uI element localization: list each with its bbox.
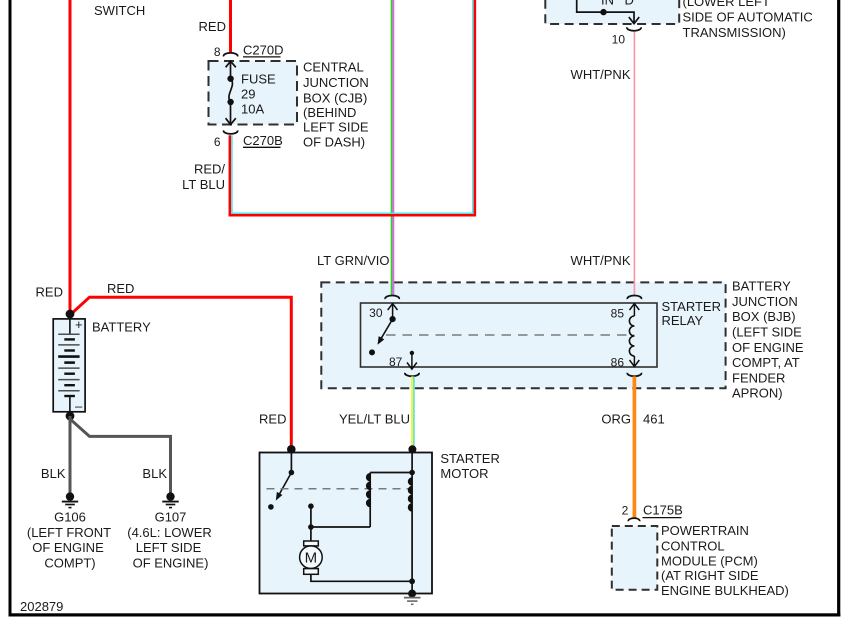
CJB text block [303,59,369,149]
svg-text:BOX (CJB): BOX (CJB) [303,90,367,105]
wire BLK to G107 [70,417,171,494]
svg-text:RELAY: RELAY [662,313,704,328]
svg-text:JUNCTION: JUNCTION [303,75,369,90]
starter actuator dashed link [267,488,411,490]
BJB text block [732,279,804,401]
relay pin 87 [410,351,414,355]
svg-text:CENTRAL: CENTRAL [303,59,364,74]
connector arc at BJB bottom right (ORG exit) [627,373,641,377]
relay contact dot [369,349,375,355]
wire ORG [633,376,637,518]
starter motor box [260,453,433,594]
starter contact link [310,506,312,527]
svg-text:C270D: C270D [243,42,283,57]
svg-text:MOTOR: MOTOR [440,466,488,481]
svg-text:STARTER: STARTER [440,451,499,466]
svg-text:85: 85 [611,306,625,320]
svg-text:BLK: BLK [142,466,167,481]
svg-text:FENDER: FENDER [732,370,785,385]
svg-text:G106: G106 [54,510,86,525]
svg-text:BATTERY: BATTERY [732,279,791,294]
powertrain control module box [612,526,658,590]
label RED/LT BLU [182,162,225,193]
svg-text:86: 86 [611,355,625,369]
connector arc below TR sensor [627,27,641,31]
starter relay inner box [361,303,658,367]
svg-text:30: 30 [369,306,383,320]
ground G107 [162,492,178,507]
svg-text:MODULE (PCM): MODULE (PCM) [661,554,758,569]
svg-text:RED: RED [107,281,134,296]
svg-text:M: M [305,550,318,567]
wire RED/LT BLU (cyan stripe) [232,0,473,213]
svg-text:+: + [75,317,83,332]
svg-text:COMPT, AT: COMPT, AT [732,355,800,370]
starter solenoid top link [370,472,412,474]
svg-text:RED: RED [259,412,286,427]
wire RED branch battery to starter motor [70,297,291,449]
battery junction box (BJB) outer [321,282,725,388]
fuse 29 10A symbol [226,61,236,124]
svg-text:BLK: BLK [41,466,66,481]
starter coil bottom wiring [311,526,370,528]
wire RED/LT BLU (red stripe) [230,0,475,215]
svg-text:BOX (BJB): BOX (BJB) [732,309,796,324]
TR sensor junction dot [600,9,606,15]
svg-text:8: 8 [214,45,221,59]
svg-text:TRANSMISSION): TRANSMISSION) [683,25,786,40]
wire LT GRN/VIO (violet stripe) [393,0,395,296]
frame left border [9,0,12,617]
svg-text:YEL/LT BLU: YEL/LT BLU [339,412,410,427]
label STARTER MOTOR [440,451,499,481]
connector C270B arc [224,130,238,134]
svg-text:FUSE: FUSE [241,71,276,86]
svg-text:LT GRN/VIO: LT GRN/VIO [317,253,389,268]
svg-text:2: 2 [622,504,629,518]
TR sensor arrow down [629,17,639,24]
relay coil pin 85 arrow [630,304,640,317]
frame bottom border [9,613,841,616]
svg-text:LEFT SIDE: LEFT SIDE [303,119,369,134]
connector arc at BJB bottom left (YEL/LT BLU exit) [405,373,419,377]
G106 text block [27,510,111,571]
svg-text:(AT RIGHT SIDE: (AT RIGHT SIDE [661,568,759,583]
starter hold-in coil (right) [408,477,412,511]
svg-text:ORG: ORG [601,412,631,427]
wire WHT/PNK [633,32,635,296]
motor M1 [310,527,312,541]
svg-text:OF DASH): OF DASH) [303,135,365,150]
svg-text:87: 87 [389,355,403,369]
svg-text:OF ENGINE: OF ENGINE [732,340,804,355]
wire RED to fuse 29 (vertical) [229,0,232,53]
ground G106 [62,492,78,507]
svg-text:(4.6L: LOWER: (4.6L: LOWER [127,525,212,540]
battery B1 [53,319,85,412]
G107 text block [127,510,212,571]
central junction box (CJB) [209,61,298,125]
svg-text:LEFT SIDE: LEFT SIDE [136,540,202,555]
PCM text block [661,523,789,598]
connector C270D arc [224,53,238,57]
svg-text:SWITCH: SWITCH [94,3,145,18]
svg-text:(LEFT SIDE: (LEFT SIDE [732,325,802,340]
svg-text:WHT/PNK: WHT/PNK [571,253,631,268]
svg-text:LT BLU: LT BLU [182,177,225,192]
relay actuator dashed link [386,334,634,336]
svg-text:G107: G107 [155,510,187,525]
svg-text:POWERTRAIN: POWERTRAIN [661,523,749,538]
starter motor red entry dot [287,445,296,454]
svg-text:RED: RED [36,285,63,300]
svg-text:C270B: C270B [243,133,283,148]
svg-text:(BEHIND: (BEHIND [303,105,356,120]
starter case ground [408,590,416,598]
TR sensor location text [683,0,813,40]
starter motor yellow entry dot [408,445,416,453]
right coil down wire [411,473,413,594]
svg-text:29: 29 [241,87,255,102]
svg-text:202879: 202879 [20,599,63,614]
battery negative junction dot [66,412,75,421]
svg-text:C175B: C175B [643,503,683,518]
svg-text:JUNCTION: JUNCTION [732,294,798,309]
starter pull-in coil (left) [369,473,371,528]
relay coil [629,316,634,356]
svg-text:461: 461 [643,412,665,427]
starter solenoid right feed [411,453,413,473]
starter switch [290,453,292,473]
svg-text:IN: IN [601,0,614,8]
svg-text:STARTER: STARTER [662,299,721,314]
wire LT GRN/VIO (green stripe) [391,0,393,296]
svg-text:(LEFT FRONT: (LEFT FRONT [27,525,111,540]
svg-text:BATTERY: BATTERY [92,320,151,335]
frame right border [837,0,840,617]
svg-text:6: 6 [214,135,221,149]
motor to ground wiring [311,574,412,581]
wire BLK to G106 [69,416,72,494]
svg-text:SIDE OF AUTOMATIC: SIDE OF AUTOMATIC [683,10,813,25]
connector C175B arc [628,518,639,521]
relay pin 30 arrow [388,304,398,320]
relay coil pin 86 arrow [630,356,640,367]
label STARTER RELAY [662,299,721,328]
svg-text:OF ENGINE): OF ENGINE) [133,556,209,571]
battery positive junction dot [66,310,75,319]
svg-text:–: – [75,399,83,414]
svg-text:10A: 10A [241,102,264,117]
connector arc at BJB top right (WHT/PNK entry) [627,295,641,299]
svg-text:OF ENGINE: OF ENGINE [32,540,104,555]
relay switch blade [390,316,396,322]
svg-text:RED/: RED/ [194,162,225,177]
connector arc at BJB top left (LT GRN/VIO entry) [385,295,399,299]
svg-text:(LOWER LEFT: (LOWER LEFT [683,0,770,9]
wire YEL/LT BLU (yellow stripe) [411,376,413,449]
svg-text:COMPT): COMPT) [44,556,95,571]
starter switch contact dot [268,504,274,510]
svg-text:CONTROL: CONTROL [661,538,725,553]
TR sensor internal wire [577,0,634,18]
svg-text:D: D [625,0,634,8]
svg-text:10: 10 [612,33,626,47]
svg-text:RED: RED [199,19,226,34]
svg-text:APRON): APRON) [732,386,783,401]
wire YEL/LT BLU (cyan stripe) [413,376,415,449]
svg-text:WHT/PNK: WHT/PNK [571,67,631,82]
transmission range sensor box (top right, cut off) [545,0,679,24]
svg-text:ENGINE BULKHEAD): ENGINE BULKHEAD) [661,583,789,598]
wire RED from battery junction (vertical left) [69,0,72,313]
